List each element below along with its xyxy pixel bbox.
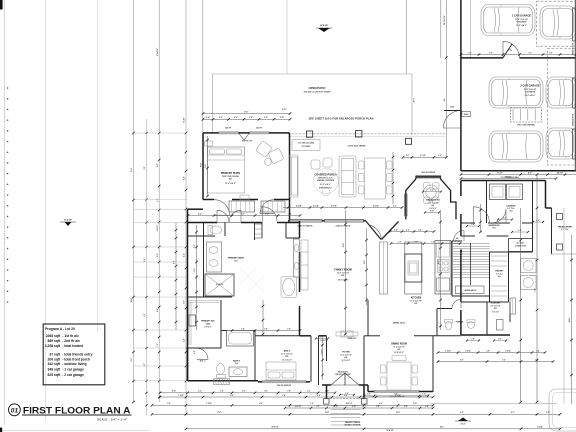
garage door jamb marks right bottom (573, 78, 576, 108)
open patio outline (213, 73, 412, 75)
wall dining north gaps (364, 335, 380, 337)
freestanding tub (281, 277, 297, 298)
extension line x=470 (470, 0, 472, 58)
svg-text:3'-8": 3'-8" (486, 350, 490, 352)
garage divider door swing (503, 41, 520, 58)
dim rows right wing south (438, 352, 545, 354)
mudroom door arc (474, 207, 490, 223)
bath window ticks (175, 222, 177, 330)
front porch steps (331, 406, 361, 426)
washer dryer (490, 184, 506, 200)
svg-text:5' 1/2 PLUMBING WALL: 5' 1/2 PLUMBING WALL (501, 176, 520, 179)
svg-text:2'-10": 2'-10" (325, 391, 329, 393)
svg-text:5'-0": 5'-0" (194, 268, 196, 272)
svg-text:3'-6": 3'-6" (449, 241, 453, 243)
svg-text:2'-8": 2'-8" (425, 406, 429, 408)
svg-text:SEE SHEET 2/A-5 FOR ENLARGED: SEE SHEET 2/A-5 FOR ENLARGED PORCH PLAN (309, 117, 374, 121)
dashed future bay 1-car (537, 1, 576, 46)
car in 1-car garage (481, 5, 535, 36)
scatter dims kitchen col (0, 0, 1, 1)
svg-text:BATH 2: BATH 2 (233, 360, 241, 363)
kitchen dim col x=366.5 (366, 228, 368, 305)
svg-text:SIZE AND LOCATION BY OWNER: SIZE AND LOCATION BY OWNER (304, 91, 331, 94)
extension line x=287 (286, 0, 288, 74)
dining table set (381, 356, 418, 391)
svg-text:12'X18' BOX GIRDER: 12'X18' BOX GIRDER (348, 146, 367, 148)
stair direction arrow (460, 250, 462, 283)
interior dim col x=345 family (345, 210, 347, 335)
laundry door arc (492, 209, 506, 223)
toilet bath2 a (217, 364, 226, 379)
svg-text:6'-2": 6'-2" (157, 308, 159, 312)
svg-text:5'-9": 5'-9" (379, 403, 383, 405)
garage dim line x=440 with arrow ticks (440, 0, 442, 58)
bed2 bed (266, 362, 296, 380)
wall foyer/dining divider y=336 (414, 335, 433, 337)
svg-text:26'-1": 26'-1" (440, 427, 445, 429)
porch sofa facing west (339, 156, 356, 197)
porch west furniture (289, 155, 298, 197)
svg-text:5'-8": 5'-8" (376, 406, 380, 408)
front porch slab (327, 398, 365, 400)
wall bath row north y=222.5 (188, 222, 218, 224)
svg-text:FOYER: FOYER (342, 352, 350, 354)
svg-text:6'-0": 6'-0" (157, 253, 159, 257)
svg-text:10'-6": 10'-6" (364, 260, 366, 264)
right ext dim col x=537 (536, 174, 538, 402)
svg-text:74'-2": 74'-2" (156, 225, 159, 230)
extension line x=133 (133, 0, 135, 402)
car in future bay (540, 6, 576, 39)
svg-text:6'-8": 6'-8" (518, 230, 522, 232)
left dim col ticks x=159 (158, 132, 161, 135)
svg-text:17'-0": 17'-0" (131, 358, 133, 362)
benchmark marker left (60, 220, 76, 227)
wic built nook (509, 239, 533, 252)
svg-text:3068: 3068 (450, 107, 454, 109)
interior dim row y=243 kitchen (391, 243, 460, 245)
bed furniture (205, 141, 250, 200)
wic drawers box (189, 315, 196, 326)
svg-text:8'-1": 8'-1" (393, 205, 397, 207)
svg-text:7'-5": 7'-5" (502, 359, 506, 361)
dashed future bay 2-car (547, 49, 576, 166)
right ext line x=564 (563, 208, 565, 404)
svg-text:3'-0": 3'-0" (184, 300, 186, 304)
wall garage west x=461 (460, 0, 462, 171)
svg-text:3,258 sqft: 3,258 sqft (45, 344, 61, 348)
svg-text:3'-8": 3'-8" (264, 391, 268, 393)
window primary suite north 1 (219, 132, 239, 134)
svg-text:10'-0": 10'-0" (461, 424, 466, 426)
svg-text:3'-2": 3'-2" (398, 241, 402, 243)
hall dim row y=231.5 (390, 231, 434, 233)
svg-text:3'-8": 3'-8" (241, 328, 245, 330)
wall laundry north y=180.5 (461, 180, 546, 182)
svg-text:PRIMARY WIC: PRIMARY WIC (201, 320, 215, 323)
svg-text:17'-0": 17'-0" (244, 111, 249, 113)
svg-text:34'-10 1/2": 34'-10 1/2" (443, 15, 446, 25)
porch column 1 (307, 131, 313, 137)
bottom long line y=403.8 (430, 403, 557, 405)
svg-text:7'-6": 7'-6" (310, 403, 314, 405)
svg-text:5'-0": 5'-0" (503, 218, 507, 220)
svg-text:1 CAR GARAGE: 1 CAR GARAGE (512, 15, 532, 18)
svg-text:SCALE : 1/4" = 1'-0": SCALE : 1/4" = 1'-0" (97, 417, 128, 421)
svg-text:9'-8": 9'-8" (259, 403, 263, 405)
toilet primary wc (208, 226, 222, 235)
svg-text:5'-6": 5'-6" (549, 52, 553, 54)
scatter dims scullery (467, 340, 479, 342)
svg-text:W.E.: W.E. (229, 179, 233, 181)
svg-text:5'-2": 5'-2" (249, 117, 253, 119)
svg-text:9'-0"x9'-0": 9'-0"x9'-0" (429, 208, 437, 210)
stairs walls (451, 241, 453, 296)
garage right edge wall (574, 0, 576, 171)
svg-text:12'-6" CLG. HT.: 12'-6" CLG. HT. (410, 300, 422, 302)
scullery tall cabinets (510, 298, 516, 314)
porch lounge chairs top (311, 158, 332, 169)
scullery walls (486, 302, 488, 335)
wall laundry east x=532.5 (532, 181, 534, 253)
bottom dim row 2 (160, 396, 433, 398)
svg-text:LOCKER NOOK: LOCKER NOOK (515, 246, 527, 248)
svg-text:348 sqft: 348 sqft (48, 368, 62, 372)
svg-text:9'-0"x9'-0": 9'-0"x9'-0" (204, 326, 212, 328)
binder dots column (7, 87, 9, 303)
svg-text:342 sqft: 342 sqft (48, 362, 62, 366)
dim row porch front (364, 395, 428, 397)
svg-text:3'-10": 3'-10" (546, 412, 551, 414)
dining walls (367, 385, 369, 392)
svg-text:8'-0"x8'-0": 8'-0"x8'-0" (342, 360, 350, 362)
svg-text:- total heated: - total heated (62, 344, 83, 348)
family NE diagonal funnel (365, 220, 381, 240)
page bottom faint line (2, 430, 150, 432)
bath2 door arcs (197, 348, 208, 359)
patio benchmark marker (316, 25, 332, 32)
svg-text:9'-2": 9'-2" (430, 190, 434, 192)
bottom dim row 4 (152, 413, 560, 415)
svg-text:BY OWNER: BY OWNER (302, 146, 312, 148)
svg-text:889 sqft: 889 sqft (48, 339, 62, 343)
svg-text:SCULLERY: SCULLERY (490, 303, 501, 305)
wall primary suite north (203, 132, 219, 134)
bed2 window (262, 381, 306, 383)
svg-text:01: 01 (11, 407, 19, 414)
svg-text:3'-6": 3'-6" (431, 241, 435, 243)
svg-text:24'-0"x29'-0": 24'-0"x29'-0" (525, 94, 536, 97)
svg-text:12'-6" CLG. HT.: 12'-6" CLG. HT. (340, 354, 352, 356)
svg-text:- outdoor living: - outdoor living (62, 362, 86, 366)
garage door jamb marks right top (573, 8, 576, 41)
wall breakfast bay (406, 177, 456, 220)
svg-text:7'-8 1/2": 7'-8 1/2" (206, 403, 212, 405)
svg-text:- 2nd flr a/c: - 2nd flr a/c (62, 339, 80, 343)
svg-text:16'-0": 16'-0" (200, 163, 202, 168)
svg-text:W.E.: W.E. (344, 357, 348, 359)
svg-text:W.E.: W.E. (285, 356, 289, 358)
svg-text:8'-0" CLG.: 8'-0" CLG. (561, 229, 569, 231)
svg-text:19'-0"x20'-0": 19'-0"x20'-0" (338, 279, 349, 281)
bath floor tile diagonals (240, 268, 264, 292)
kitchen cooktop burners (438, 260, 450, 273)
interior dim row y=215 hall (188, 215, 300, 217)
svg-text:PANTRY: PANTRY (496, 270, 505, 273)
svg-text:POWDER: POWDER (456, 321, 464, 323)
svg-text:5050 FX CTR: 5050 FX CTR (242, 141, 253, 143)
wall nook south y=252 (509, 251, 533, 253)
svg-text:9'-10": 9'-10" (184, 117, 186, 122)
svg-text:13'-0"x16'-0": 13'-0"x16'-0" (225, 183, 236, 185)
property line x=45 (45, 0, 47, 421)
trash box at garage door (462, 112, 471, 117)
svg-text:W.E.: W.E. (341, 275, 345, 277)
svg-text:7'-4": 7'-4" (534, 288, 537, 292)
wall dining east x=433 (432, 336, 434, 392)
svg-text:MUDROOM: MUDROOM (489, 225, 500, 227)
svg-text:5'-2": 5'-2" (234, 117, 238, 119)
porch edge dashed line (288, 133, 446, 135)
svg-text:37 sqft: 37 sqft (49, 353, 61, 357)
scatter dims foyer (340, 394, 354, 396)
svg-text:200 sqft: 200 sqft (48, 357, 62, 361)
svg-text:5'-2": 5'-2" (264, 117, 268, 119)
bed2 walls (255, 335, 310, 337)
wall front y=385 (322, 384, 331, 386)
svg-text:24'-6": 24'-6" (568, 318, 571, 323)
wall south of family y=335.5 (300, 335, 312, 337)
svg-text:W.E.: W.E. (414, 303, 418, 305)
svg-text:3'-2": 3'-2" (316, 406, 320, 408)
svg-text:7'-2": 7'-2" (157, 343, 159, 347)
wall right wing south y=208 (546, 207, 552, 209)
car B in 2-car garage (489, 131, 543, 162)
vanity primary bath west (207, 242, 222, 272)
powder room (437, 308, 452, 310)
wall family room north (288, 220, 290, 222)
kitchen west counter strip (380, 242, 388, 294)
svg-text:8'-1": 8'-1" (511, 412, 515, 414)
svg-text:KITCHEN: KITCHEN (411, 298, 422, 300)
svg-text:13'-6"x11'-0": 13'-6"x11'-0" (394, 352, 404, 354)
door house-garage (443, 111, 461, 129)
svg-text:5'-6": 5'-6" (468, 52, 472, 54)
svg-text:5'-10": 5'-10" (413, 403, 417, 405)
wall hall west x=187.5 (187, 223, 189, 331)
svg-text:CONCRETE: CONCRETE (525, 92, 536, 94)
pantry shelves (491, 256, 507, 296)
vanity primary bath east (294, 239, 300, 277)
svg-text:9'-0" CLG.: 9'-0" CLG. (507, 208, 515, 210)
svg-text:3'-8": 3'-8" (471, 339, 475, 341)
svg-text:LINEN: LINEN (206, 323, 211, 325)
bath2 walls (254, 331, 256, 381)
svg-text:3'-10": 3'-10" (352, 406, 356, 408)
suite hall closet boxes (229, 201, 255, 212)
scatter dims laundry (498, 219, 512, 221)
vertical dim suite west inside (207, 136, 209, 196)
breakfast table (423, 183, 439, 204)
svg-text:2'-8": 2'-8" (438, 155, 442, 157)
wall laundry south y=223 (461, 222, 475, 224)
svg-text:21'-8": 21'-8" (131, 168, 133, 172)
svg-text:2'-8": 2'-8" (406, 155, 410, 157)
title underline (22, 414, 132, 416)
svg-text:FIRST FLOOR PLAN A: FIRST FLOOR PLAN A (23, 405, 131, 415)
svg-text:- 1st flr a/c: - 1st flr a/c (62, 334, 79, 338)
svg-text:8'-0": 8'-0" (489, 52, 493, 54)
breakfast window band (416, 176, 441, 178)
svg-text:- 2 car garage: - 2 car garage (62, 373, 84, 377)
svg-text:13'-8" CLG. HT.: 13'-8" CLG. HT. (515, 19, 528, 21)
svg-text:LAUNDRY: LAUNDRY (506, 205, 516, 208)
bath2 threshold hatch (214, 379, 230, 385)
garage dim line x=446 rotated text (445, 0, 447, 158)
wall foyer east x=364 (363, 336, 365, 385)
bath door arcs (217, 210, 229, 222)
bottom right rounded feature (549, 389, 576, 431)
bath cluster walls (203, 223, 205, 241)
svg-text:4'-2": 4'-2" (528, 171, 532, 174)
bath2 tub (227, 331, 254, 347)
bottom dim row 5 (186, 428, 560, 430)
window band family north 2 (325, 220, 364, 222)
extension line x=203 (202, 0, 204, 133)
svg-text:625 sqft: 625 sqft (48, 373, 62, 377)
svg-text:29'-8 1/2": 29'-8 1/2" (272, 427, 279, 429)
wall garage divider y=58 (461, 57, 503, 59)
svg-text:3050 FX: 3050 FX (256, 128, 263, 130)
porch dim row (283, 207, 402, 209)
wall primary suite east (289, 133, 291, 221)
left dim col x=146 (146, 119, 148, 415)
svg-text:3'-8": 3'-8" (288, 213, 292, 215)
svg-text:DOUBLE DRS.: DOUBLE DRS. (338, 372, 349, 374)
svg-text:9'-0" CLG.: 9'-0" CLG. (496, 273, 504, 275)
svg-text:W.C. 2: W.C. 2 (200, 361, 205, 363)
porch beam line (288, 135, 446, 137)
wall hall northwest corner (188, 208, 204, 210)
svg-text:- total front porch: - total front porch (62, 357, 90, 361)
friends entry porch (551, 208, 553, 254)
svg-text:15'-8": 15'-8" (205, 164, 207, 168)
wall y=302 scullery north (461, 301, 509, 303)
dim row under garage (461, 174, 576, 176)
shower with X (205, 274, 234, 296)
svg-text:9'-0" CLG. HT.: 9'-0" CLG. HT. (491, 305, 501, 307)
svg-text:W.E.: W.E. (397, 349, 401, 351)
svg-text:2'-0": 2'-0" (367, 394, 371, 396)
stair landing box (456, 286, 485, 294)
svg-text:40'-10": 40'-10" (557, 171, 564, 174)
wall bath2 top y=330 (221, 330, 227, 332)
svg-text:10'-8 5/8": 10'-8 5/8" (320, 25, 329, 27)
wall primary suite west (202, 133, 204, 200)
wall laundry west x=486.5 (486, 181, 488, 224)
wall primary suite south (203, 199, 214, 201)
left dim col ticks x=186 (185, 132, 188, 135)
svg-text:7'-6"x5'-6": 7'-6"x5'-6" (492, 311, 500, 313)
bath2 vanity (229, 367, 247, 377)
page corner mark bottom-left (0, 428, 2, 432)
kitchen island (405, 242, 422, 294)
bottom dim row 3 (152, 404, 433, 406)
property line x=97 (96, 0, 98, 332)
svg-text:3050 FX: 3050 FX (225, 128, 232, 130)
pantry walls (489, 252, 491, 302)
far right dim col x=571.5 (571, 235, 573, 404)
wic shelves (189, 301, 219, 346)
svg-text:9'-1 1/2": 9'-1 1/2" (420, 155, 426, 157)
svg-text:DINING ROOM: DINING ROOM (391, 344, 407, 346)
golf cart parking dashed (511, 108, 542, 123)
svg-text:11'-6"x12'-0": 11'-6"x12'-0" (282, 359, 292, 361)
left wall extension stubs (134, 133, 187, 381)
svg-text:PRIMARY SUITE: PRIMARY SUITE (221, 172, 241, 175)
svg-text:12'-0" CLG. HT.: 12'-0" CLG. HT. (281, 353, 293, 355)
svg-text:BED 2: BED 2 (284, 351, 291, 353)
svg-text:3'-8 1/2": 3'-8 1/2" (157, 48, 159, 56)
svg-text:9'-0": 9'-0" (157, 163, 159, 167)
svg-text:5'-8": 5'-8" (167, 403, 171, 405)
svg-text:9'-6": 9'-6" (460, 412, 464, 414)
left dim col ticks x=133 (132, 132, 135, 135)
svg-text:3'-8": 3'-8" (287, 328, 291, 330)
svg-text:5'-6": 5'-6" (144, 313, 146, 317)
foyer strip walls (310, 336, 312, 382)
svg-text:FRIENDS ENTRY: FRIENDS ENTRY (558, 227, 573, 229)
svg-text:8'-11": 8'-11" (497, 172, 502, 174)
svg-text:TILE: TILE (492, 228, 495, 230)
porch column 2 (356, 131, 362, 137)
car D future right bottom (546, 128, 576, 159)
wall east exterior x=460.9 below garage (460, 181, 462, 197)
svg-text:5'-6": 5'-6" (184, 338, 186, 342)
svg-text:20'-0": 20'-0" (414, 98, 416, 103)
ac pads (521, 259, 537, 273)
svg-text:7'-2": 7'-2" (528, 52, 532, 54)
svg-text:2'-2": 2'-2" (425, 395, 429, 397)
page edge line left (3, 0, 5, 425)
page corner mark top-left (0, 0, 3, 10)
svg-text:STAINED CONCRETE: STAINED CONCRETE (317, 179, 335, 182)
window band family north 1 (290, 220, 323, 222)
svg-text:34'-2": 34'-2" (130, 298, 133, 303)
family room fireplace wall marks (336, 331, 358, 337)
wall dining west x=368 (367, 300, 369, 336)
stair treads (453, 244, 490, 278)
svg-text:FRONT PORCH: FRONT PORCH (345, 422, 361, 424)
scatter dims family south (316, 338, 328, 340)
front double door (331, 373, 345, 385)
svg-text:- total friends entry: - total friends entry (62, 353, 92, 357)
svg-text:TILE: TILE (234, 260, 237, 262)
scullery counter (497, 320, 504, 331)
porch round rug (314, 169, 339, 194)
svg-text:3'-8": 3'-8" (264, 328, 268, 330)
vertical dim inside stair hall (480, 204, 482, 232)
svg-text:2'-8": 2'-8" (194, 244, 196, 248)
svg-text:TILE: TILE (235, 363, 238, 365)
svg-text:5'-2": 5'-2" (219, 117, 223, 119)
interior dim ticks left wing (262, 300, 264, 336)
stair rail (470, 243, 472, 285)
svg-text:TILE: TILE (509, 211, 512, 213)
porch NE column (406, 138, 412, 144)
svg-text:2268 sqft: 2268 sqft (46, 334, 61, 338)
svg-text:3'-2": 3'-2" (307, 391, 311, 393)
